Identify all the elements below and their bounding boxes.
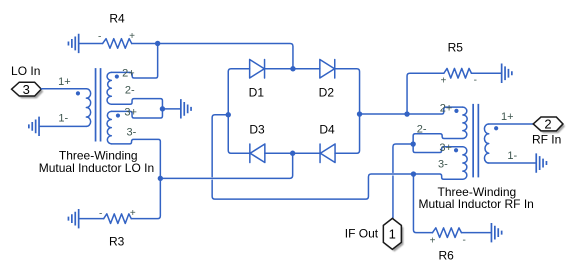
junction dot node B <box>411 171 416 176</box>
svg-text:2: 2 <box>544 117 551 132</box>
ground G7 (R6 right) <box>491 223 501 242</box>
wire RF 3- to node B <box>413 174 462 179</box>
winding 3 polarity dot <box>116 113 120 117</box>
svg-text:2+: 2+ <box>122 67 135 79</box>
svg-text:-: - <box>99 208 102 219</box>
wire ring right segment <box>335 69 360 154</box>
resistor R4 <box>103 39 132 49</box>
svg-text:R6: R6 <box>438 248 454 262</box>
wire ring left mid to IF node B (vertical split at crossing) <box>212 115 413 199</box>
wire ring bottom to LO 3- node <box>160 153 292 178</box>
svg-text:R4: R4 <box>109 11 125 25</box>
svg-text:3-: 3- <box>438 159 448 171</box>
wire ring top left segment <box>228 69 250 154</box>
svg-text:+: + <box>129 31 135 42</box>
T2 winding 1 polarity dot <box>494 126 498 130</box>
transformer T2 winding 2 <box>463 107 467 138</box>
wire port 3 to winding 1+ <box>41 88 86 90</box>
svg-text:RF In: RF In <box>532 133 561 147</box>
ground G4 (R4 left) <box>68 34 78 53</box>
transformer T1 winding 1 (LO primary) <box>86 89 90 127</box>
junction dot ring left <box>226 112 231 117</box>
T2 winding 3 polarity dot <box>454 148 458 152</box>
junction dot R3 node <box>158 176 163 181</box>
junction dot node A <box>410 141 415 146</box>
svg-text:3+: 3+ <box>124 106 137 118</box>
transformer T2 winding 3 <box>463 147 467 180</box>
wire R4 to ring top corner <box>132 43 293 68</box>
wire D1 to D2 <box>265 68 320 70</box>
svg-text:-: - <box>462 235 465 246</box>
wire T2 1- to ground <box>489 162 536 164</box>
wire node R4+ down to winding 2+ <box>111 43 157 78</box>
wire ground to R4 <box>79 42 102 44</box>
wire RF 2- / 3+ to node A <box>413 134 463 153</box>
svg-text:+: + <box>430 235 436 246</box>
ground G2 (LO center tap) <box>181 99 191 118</box>
svg-text:1-: 1- <box>58 112 68 124</box>
svg-text:R3: R3 <box>109 234 125 248</box>
svg-text:D2: D2 <box>319 85 335 99</box>
svg-text:D4: D4 <box>319 122 335 136</box>
wire R6 to ground <box>461 232 490 234</box>
wire R3 to ground <box>79 218 103 220</box>
svg-text:LO In: LO In <box>11 64 40 78</box>
junction dot R4/2+ <box>155 41 160 46</box>
transformer T2 core <box>473 104 478 177</box>
wire 2- / 3+ to common ground node <box>111 99 162 118</box>
winding 2 polarity dot <box>115 74 119 78</box>
svg-text:IF Out: IF Out <box>345 226 379 240</box>
port 1 hexagon <box>383 218 401 249</box>
diode D2 <box>320 59 335 78</box>
svg-text:D1: D1 <box>249 85 265 99</box>
wire node A to IF Out port (vertical split at crossing) <box>393 144 413 218</box>
junction dot 2-/3+ node <box>160 106 165 111</box>
wire ring right mid to RF winding 2+ <box>360 107 463 114</box>
svg-text:-: - <box>474 75 477 86</box>
ground G6 (RF 1-) <box>536 153 546 172</box>
winding 1 polarity dot <box>76 91 80 95</box>
wire node down to R3 <box>131 178 160 218</box>
wire winding 1- to ground <box>40 125 87 127</box>
port 2 hexagon shadow <box>535 119 565 133</box>
junction dot ring top <box>290 66 295 71</box>
wire D3 to D4 <box>265 152 320 154</box>
junction dot R5 tap <box>404 111 409 116</box>
wire 3- down to R3 node <box>111 139 160 178</box>
diode D1 <box>250 59 265 78</box>
junction dot ring bottom <box>290 151 295 156</box>
svg-text:1+: 1+ <box>58 76 71 88</box>
svg-text:Mutual Inductor LO In: Mutual Inductor LO In <box>39 161 154 175</box>
svg-text:+: + <box>130 208 136 219</box>
wire node to ground G2 <box>162 108 180 110</box>
svg-text:3-: 3- <box>126 126 136 138</box>
diode D4 <box>320 144 335 163</box>
svg-text:-: - <box>98 31 101 42</box>
ground G1 (LO 1-) <box>29 117 39 136</box>
port 2 hexagon <box>533 117 563 131</box>
resistor R5 <box>444 68 472 78</box>
wire R5 down to tap <box>407 73 444 114</box>
svg-text:3: 3 <box>23 82 30 97</box>
wire T2 1+ to port 2 <box>489 123 534 125</box>
svg-text:1-: 1- <box>507 150 517 162</box>
port 1 hexagon shadow <box>385 221 403 252</box>
transformer T1 winding 2 <box>107 72 111 104</box>
transformer T2 winding 1 <box>484 124 488 163</box>
port 3 hexagon <box>12 82 42 96</box>
transformer T1 winding 3 <box>107 111 111 143</box>
resistor R6 <box>432 228 461 238</box>
svg-text:+: + <box>441 75 447 86</box>
wire R5 to ground <box>471 72 501 74</box>
wire node B down to R6 <box>413 174 432 233</box>
svg-text:D3: D3 <box>249 122 265 136</box>
svg-text:2+: 2+ <box>440 102 453 114</box>
junction dot ring right <box>357 111 362 116</box>
svg-text:3+: 3+ <box>439 142 452 154</box>
ground G5 (R5 right) <box>502 64 512 83</box>
resistor R3 <box>104 214 132 224</box>
ground G3 (R3 left) <box>68 209 78 228</box>
svg-text:1: 1 <box>389 226 396 241</box>
svg-text:2-: 2- <box>125 85 135 97</box>
svg-text:R5: R5 <box>448 40 464 54</box>
diode D3 <box>250 144 265 163</box>
transformer T1 core <box>96 68 101 141</box>
port 3 hexagon shadow <box>14 85 44 99</box>
svg-text:Mutual Inductor RF In: Mutual Inductor RF In <box>418 197 533 211</box>
svg-text:1+: 1+ <box>501 111 514 123</box>
T2 winding 2 polarity dot <box>454 109 458 113</box>
